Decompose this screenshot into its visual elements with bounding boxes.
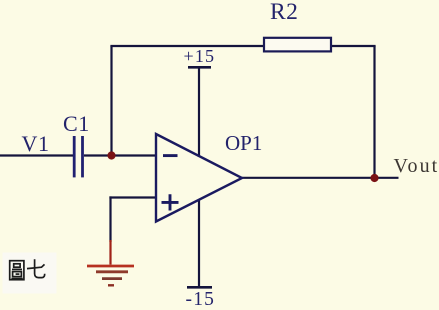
svg-text:-15: -15: [186, 289, 216, 310]
svg-text:Vout: Vout: [394, 155, 439, 177]
svg-text:R2: R2: [270, 0, 298, 25]
svg-text:OP1: OP1: [225, 131, 262, 155]
svg-text:C1: C1: [63, 111, 90, 136]
svg-text:+15: +15: [184, 46, 216, 66]
svg-text:V1: V1: [22, 131, 50, 156]
